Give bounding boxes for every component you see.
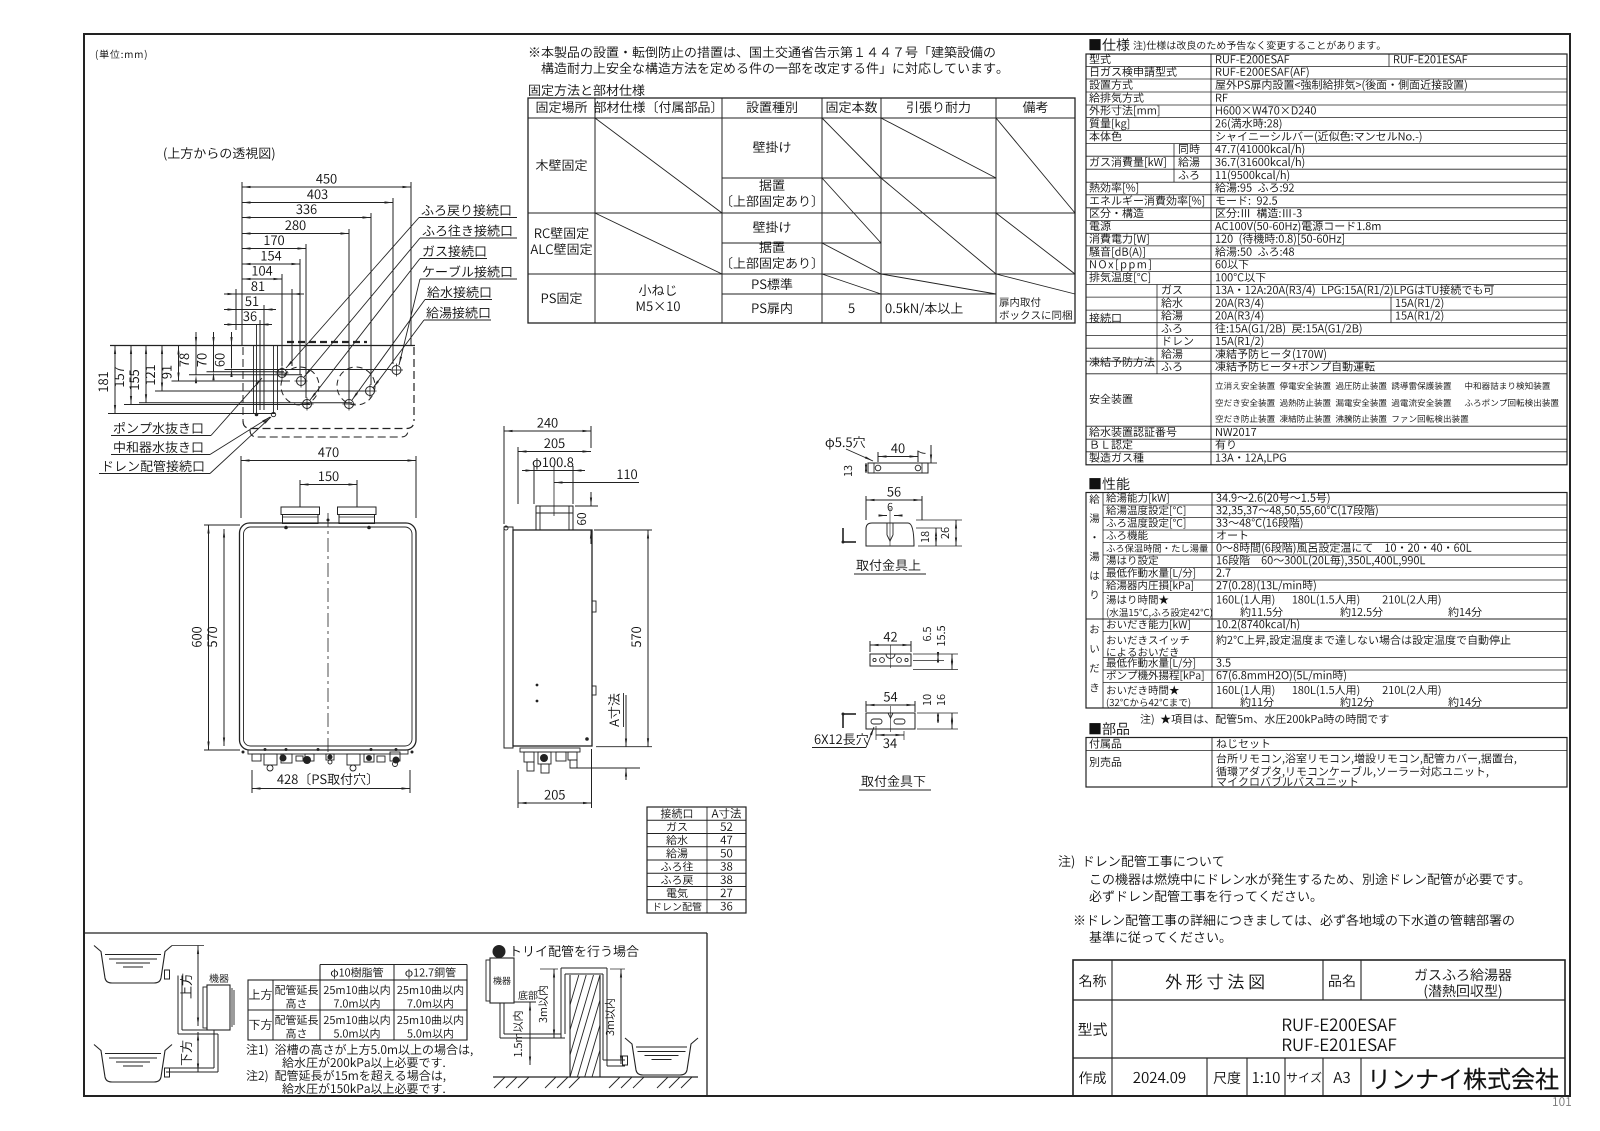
label furo-return port [286,204,517,368]
front view top screws [284,519,371,530]
torii dim 1.5m [513,1002,531,1065]
front view dim 150 [300,471,357,507]
fixing table diagonals [595,118,1075,294]
drain note line2 [1091,873,1522,885]
label drain pipe port [99,417,271,474]
torii wall [570,975,600,1077]
bracket-bot caption [859,775,931,790]
fixing table headers [537,101,1048,113]
parts table text [1089,738,1516,786]
label hot-water port [373,307,491,388]
fixing note line1 [530,46,995,58]
drain note line1 [1059,855,1224,869]
top view dim 60 [215,332,391,377]
side view body [513,530,592,746]
parts title [1089,722,1128,735]
torii dim 3m left [538,969,558,1038]
side view small dots [536,684,589,741]
front view flue right [338,507,377,524]
drain note line4 [1075,914,1514,926]
port hot-water [364,385,377,398]
bracket-top hole label [826,436,873,461]
dim joutou (upper) [180,946,199,1027]
front view dim 570 [207,529,225,746]
bracket-bot dim 10 [917,695,958,724]
title block row1 [1079,968,1512,999]
bracket-bot strip [870,645,911,668]
bracket-top body [866,508,914,546]
bracket-top caption [854,559,926,574]
performance table grid [1086,493,1567,709]
side view dim 205 bottom [518,749,592,808]
A-dim table grid [647,807,746,913]
right bath tub [623,1038,699,1075]
top view dim 36 [224,311,272,410]
label water-in port [352,286,492,400]
spec table text [1089,54,1558,464]
side view door tabs [592,601,596,695]
port furo-return [276,367,289,380]
page number [1553,1097,1571,1106]
torii dim 3m right [605,969,625,1064]
top view wall line [110,345,415,347]
side view bottom fittings [520,748,580,773]
title block row3 [1079,1071,1350,1084]
fixing table grid [528,98,1075,323]
bracket-top datum mark [842,528,857,544]
top view dim 104 [242,266,282,366]
teibu label [514,991,538,1002]
top view dim 450 [242,174,411,345]
top view dim 78 [179,332,302,383]
side view dim 205 top [518,438,591,504]
side view dim A [570,694,640,780]
A-dim table text [655,808,741,911]
top view dim 154 [242,251,300,375]
port cable [390,364,403,377]
bracket-bot slot label [812,727,874,748]
fixing table col3 text [729,141,814,314]
title block row2 [1078,1018,1396,1051]
tub dim extension lines [172,945,204,947]
torii ground [493,1077,698,1088]
pipe table grid [248,965,467,1041]
bracket-bot dim 16 [917,695,958,730]
spec title [1089,38,1379,51]
performance footnote [1140,714,1388,725]
label neutralizer drain [111,417,270,455]
left piping [166,976,218,1073]
top view dim 155 [130,346,352,403]
top view title [164,147,274,161]
top view dim 81 [224,281,304,366]
top view dim 157 [115,346,310,405]
port furo-supply [295,375,308,388]
spec table grid [1086,54,1567,465]
front view dim 428 [252,770,410,793]
label pump drain [111,378,262,436]
title block frame [1073,960,1565,1096]
bracket-bot body [866,706,915,732]
bracket-bot dim 15.5 [913,626,958,670]
front view bottom fittings [242,748,414,771]
company name [1372,1068,1558,1090]
torii title [493,945,639,958]
kiki unit left [203,985,234,1030]
bracket-top dim 56 [866,487,922,520]
top view dim 336 [242,204,371,385]
top view dim 70 [197,332,284,380]
bracket-bot dim 6.5 [913,627,958,662]
side view flue [536,506,573,530]
top view pipe lines [254,325,278,414]
bracket-top strip [868,463,928,473]
bracket-top dim 6 [879,503,903,517]
bracket-top dim 26 [916,520,962,546]
title block row3 grid [1207,1058,1361,1096]
front view centerline [327,513,329,762]
top view flue circle right [337,367,375,405]
performance group labels [1090,494,1100,692]
torii floor line [0,0,1,1]
pipe notes [246,1044,472,1094]
pipe table text [249,967,463,1038]
torii piping [500,968,625,1066]
performance table text [1106,493,1510,708]
drain dot neutralizer [271,412,275,416]
side view dim 240 [504,418,591,524]
drain dot pump [255,413,259,417]
drain note line3 [1089,890,1314,902]
bracket-top dim 7 [917,445,937,463]
front view body [240,523,417,750]
fixing table col1 text [530,159,592,304]
bracket-bot dim 54 [866,692,915,712]
top view dim 121 [145,346,370,392]
top view dim 170 [242,235,306,398]
top view flue dashed top [287,341,367,343]
label furo-supply port [304,225,517,377]
bracket-top dim 18 [916,528,962,546]
fixing table values [848,297,1071,320]
top view dim 403 [242,189,393,364]
bracket-bot dim 34 [876,726,904,748]
kiki label left [209,974,229,983]
label cable port [399,265,517,365]
dim kahou (lower) [180,1032,199,1072]
front view dim 470 [241,447,416,518]
front view dim 600 [192,525,240,750]
bracket-top dim 13 [844,463,867,476]
top view dim 51 [224,297,276,410]
side view wall plate [504,526,513,748]
bottom section box [84,933,707,1096]
bracket-bot dim 42 [870,632,911,652]
top view dim 91 [162,346,290,381]
label gas port [310,245,487,400]
fixing table title [529,84,644,96]
fixing table col2 text [637,284,680,311]
top view flue circle left [281,367,319,405]
performance title [1089,477,1129,490]
port gas [301,398,314,411]
units note [96,50,147,60]
side view dim 110 [554,466,639,516]
side view dim phi100.8 [522,457,585,504]
fixing note line2 [541,62,1000,74]
top view dim 280 [242,220,349,399]
bracket-top dim 40 [878,443,918,462]
side view dim 60 [575,492,598,544]
drain note line5 [1090,931,1224,943]
upper bath tub [94,946,172,984]
front view flue left [281,507,320,524]
lower bath tub [94,1045,172,1083]
top view unit dashed outline [243,347,414,437]
parts table grid [1086,738,1567,788]
kiki unit torii [486,958,514,1003]
bracket-bot datum mark [842,713,857,729]
side view dim A underline [623,693,625,727]
top view dim 181 [98,346,275,414]
side view dim 570 [594,530,652,747]
port water-in [343,398,356,411]
